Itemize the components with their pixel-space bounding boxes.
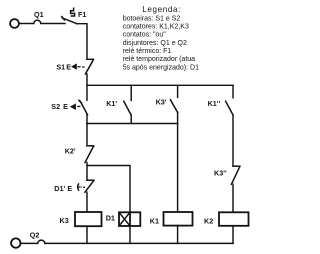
svg-text:Q2: Q2 (30, 231, 40, 240)
svg-text:contatores: K1,K2,K3: contatores: K1,K2,K3 (123, 24, 189, 31)
svg-text:E: E (63, 102, 68, 111)
svg-text:F1: F1 (78, 10, 86, 19)
svg-text:K2: K2 (204, 217, 213, 226)
svg-text:S1: S1 (56, 62, 65, 71)
svg-text:Q1: Q1 (34, 10, 44, 19)
svg-text:disjuntores: Q1 e Q2: disjuntores: Q1 e Q2 (123, 40, 187, 47)
svg-text:relé térmico: F1: relé térmico: F1 (123, 48, 172, 55)
svg-text:K3: K3 (60, 216, 69, 225)
svg-text:contatos: "ou": contatos: "ou" (123, 32, 167, 39)
svg-text:S2: S2 (51, 102, 60, 111)
svg-text:K3'': K3'' (214, 169, 227, 178)
svg-text:K1'': K1'' (208, 99, 221, 108)
svg-text:E: E (66, 62, 71, 71)
svg-text:K2': K2' (65, 147, 76, 156)
svg-text:relé temporizador (atua: relé temporizador (atua (123, 56, 195, 63)
svg-text:K1: K1 (150, 217, 159, 226)
svg-text:K1': K1' (106, 99, 117, 108)
svg-text:K3': K3' (156, 97, 167, 106)
svg-text:E: E (67, 184, 72, 193)
svg-text:D1': D1' (54, 184, 65, 193)
svg-text:5s após energizado): D1: 5s após energizado): D1 (123, 64, 199, 71)
svg-text:D1: D1 (106, 213, 115, 222)
svg-text:Legenda:: Legenda: (142, 5, 181, 14)
svg-text:botoeiras: S1 e S2: botoeiras: S1 e S2 (123, 15, 181, 22)
